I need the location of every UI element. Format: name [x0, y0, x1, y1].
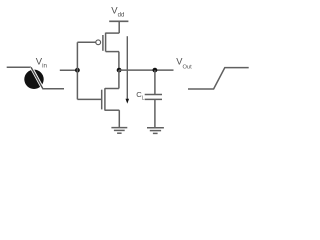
transistor PMOS gate bar [102, 35, 104, 51]
wire PMOS gate [77, 41, 95, 43]
svg-text:VOut: VOut [176, 57, 192, 71]
wire input high level [7, 66, 31, 68]
wire capacitor top [154, 70, 156, 94]
transistor PMOS drain arm [106, 51, 119, 53]
wire PMOS drain to output node [118, 52, 120, 71]
ground left [111, 128, 127, 134]
svg-text:Vdd: Vdd [111, 5, 124, 18]
svg-text:CL: CL [136, 90, 144, 101]
source falling-edge stroke casing [31, 67, 43, 89]
node output junction [117, 68, 122, 73]
transistor PMOS source arm [106, 32, 120, 34]
wire input low level [42, 88, 64, 90]
wire Vdd stub [118, 21, 120, 33]
source V_in step symbol circle [24, 70, 43, 89]
node input junction [75, 68, 80, 73]
output waveform rising edge [188, 68, 249, 89]
ground right [147, 128, 164, 134]
wire NMOS gate [77, 98, 101, 100]
wire capacitor bottom [154, 99, 156, 127]
wire output rail [119, 69, 173, 71]
wire gate riser [76, 42, 78, 99]
transistor NMOS source arm [105, 109, 119, 111]
wire NMOS drain [118, 70, 120, 88]
current arrow head [126, 99, 130, 104]
wire NMOS source to ground [118, 110, 120, 127]
capacitor C_L top plate [145, 94, 162, 96]
transistor NMOS gate bar [101, 90, 103, 110]
source falling-edge stroke [31, 67, 43, 89]
power Vdd bar [109, 20, 128, 22]
node capacitor junction [153, 68, 158, 73]
transistor NMOS drain arm [105, 88, 119, 90]
current arrow line [126, 36, 128, 99]
svg-text:Vin: Vin [36, 56, 48, 69]
transistor PMOS bubble [96, 40, 101, 45]
wire input to gate node [60, 69, 78, 71]
transistor NMOS channel [104, 88, 106, 110]
transistor PMOS channel [105, 33, 107, 52]
capacitor C_L bottom plate [145, 98, 162, 100]
